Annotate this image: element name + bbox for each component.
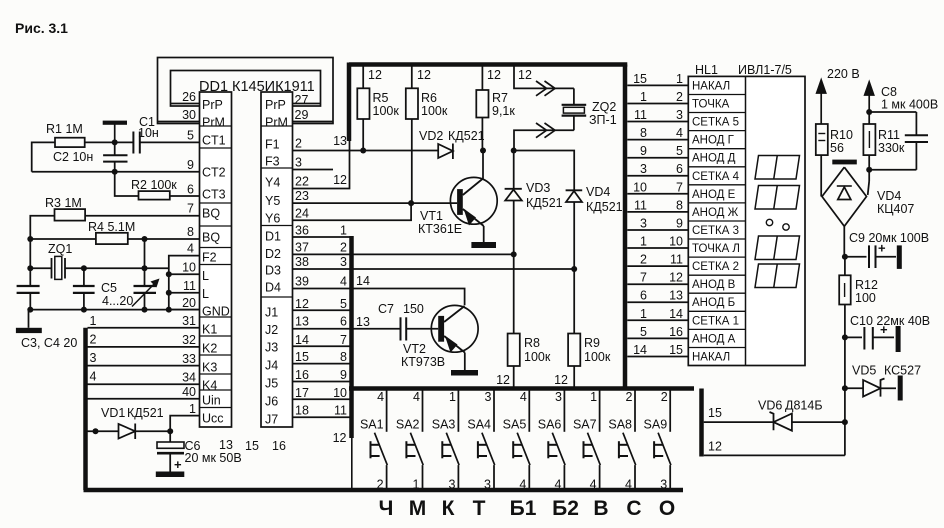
terminal bar bridge plus [832, 160, 857, 165]
svg-text:10н: 10н [138, 126, 159, 140]
svg-text:+: + [880, 322, 888, 337]
svg-text:7: 7 [187, 202, 194, 216]
svg-text:C7: C7 [378, 302, 394, 316]
svg-text:31: 31 [182, 314, 196, 328]
display digit group 1 [755, 156, 800, 180]
svg-text:8: 8 [676, 198, 683, 212]
svg-text:4: 4 [554, 478, 561, 492]
DD1 right cell labels [265, 98, 288, 427]
svg-text:3: 3 [660, 478, 667, 492]
pin 18 wire J7 [293, 404, 352, 418]
svg-text:АНОД Г: АНОД Г [692, 135, 735, 147]
svg-text:100к: 100к [421, 104, 448, 118]
svg-text:9: 9 [340, 368, 347, 382]
pin 32 wire K2 [88, 333, 200, 348]
svg-text:CT3: CT3 [202, 188, 226, 202]
svg-text:27: 27 [295, 93, 309, 107]
HL1 pin АНОД Д 9/5 [627, 144, 735, 165]
label key Б1 [510, 497, 537, 520]
pin 8 wire BQ [145, 225, 200, 239]
svg-text:4: 4 [520, 390, 527, 404]
svg-text:J1: J1 [265, 306, 278, 320]
wire R1 loop [32, 142, 115, 171]
svg-text:VD1: VD1 [101, 406, 125, 420]
switch SA9 [644, 390, 671, 492]
svg-text:R5: R5 [373, 91, 389, 105]
svg-text:2: 2 [377, 478, 384, 492]
diode VD5 КС527 zener [845, 364, 921, 401]
svg-text:C10 22мк 40В: C10 22мк 40В [850, 314, 930, 328]
HL1 pin НАКАЛ 15/1 [627, 72, 730, 93]
svg-text:SA5: SA5 [503, 418, 527, 432]
switch SA6 [538, 390, 565, 492]
pin 34 wire K4 [88, 370, 200, 385]
svg-text:12: 12 [554, 373, 568, 387]
svg-text:J3: J3 [265, 341, 278, 355]
capacitor C7 150 [378, 302, 438, 341]
svg-text:R1 1M: R1 1M [46, 122, 83, 136]
svg-text:9: 9 [187, 158, 194, 172]
wire GND bus crystal [30, 309, 199, 311]
ground crystal [16, 310, 42, 333]
svg-text:C5: C5 [101, 281, 117, 295]
svg-text:4: 4 [590, 478, 597, 492]
display colon dots [766, 219, 789, 230]
HL1 pin АНОД Ж 11/8 [627, 198, 738, 219]
HL1 pin АНОД А 5/16 [627, 325, 735, 346]
DD1 right pin box [261, 92, 293, 427]
svg-text:J4: J4 [265, 359, 278, 373]
crystal ZQ1 [30, 242, 169, 279]
svg-text:15: 15 [295, 350, 309, 364]
svg-text:R12: R12 [855, 278, 878, 292]
pin 16 wire J5 [293, 368, 352, 382]
svg-text:СЕТКА 2: СЕТКА 2 [692, 261, 739, 273]
svg-text:15: 15 [669, 343, 683, 357]
svg-text:КД521: КД521 [586, 200, 623, 214]
svg-text:10: 10 [669, 235, 683, 249]
svg-text:3: 3 [295, 156, 302, 170]
svg-text:СЕТКА 5: СЕТКА 5 [692, 117, 739, 129]
svg-text:SA7: SA7 [573, 418, 597, 432]
svg-text:330к: 330к [878, 141, 905, 155]
svg-text:1: 1 [640, 90, 647, 104]
svg-text:КТ361Е: КТ361Е [418, 222, 462, 236]
pin 14 wire J3 [293, 333, 352, 347]
pin 13 wire J2 to C7 [293, 315, 401, 330]
net 12 label in switch box [333, 431, 347, 445]
svg-text:АНОД В: АНОД В [692, 279, 736, 291]
svg-text:VD4: VD4 [877, 189, 901, 203]
svg-text:12: 12 [333, 173, 347, 187]
svg-text:30: 30 [182, 108, 196, 122]
wire ZQ2 lower [514, 123, 574, 152]
svg-text:L: L [202, 287, 209, 301]
svg-text:D2: D2 [265, 247, 281, 261]
transistor VT2 КТ973В [401, 305, 478, 370]
svg-text:VD6: VD6 [758, 399, 782, 413]
display digit group 4 [755, 264, 800, 288]
svg-text:VT2: VT2 [403, 342, 426, 356]
svg-text:2: 2 [90, 333, 97, 347]
switch SA5 [503, 390, 530, 492]
svg-text:13: 13 [333, 134, 347, 148]
IC DD1 label [199, 79, 315, 95]
svg-text:13: 13 [669, 289, 683, 303]
svg-text:АНОД Б: АНОД Б [692, 297, 735, 309]
svg-text:GND: GND [202, 305, 230, 319]
switch SA8 [608, 390, 635, 492]
svg-text:КД521: КД521 [526, 196, 563, 210]
svg-text:М: М [409, 497, 427, 520]
svg-text:11: 11 [334, 404, 347, 418]
svg-text:4: 4 [90, 370, 97, 384]
label key К [442, 497, 455, 520]
pin 15 wire J4 [293, 350, 352, 364]
svg-text:12: 12 [368, 68, 382, 82]
svg-text:R10: R10 [830, 128, 853, 142]
svg-text:11: 11 [634, 108, 647, 122]
node R11 bottom [866, 167, 872, 173]
svg-text:CT2: CT2 [202, 166, 226, 180]
resistor R1 1M [46, 122, 85, 147]
svg-text:56: 56 [830, 141, 844, 155]
node D3 junction [571, 266, 577, 272]
svg-text:1 мк 400В: 1 мк 400В [881, 98, 938, 112]
svg-text:3: 3 [640, 217, 647, 231]
diode VD2 КД521 [419, 129, 485, 159]
svg-text:ИВЛ1-7/5: ИВЛ1-7/5 [738, 63, 792, 77]
label key С [626, 497, 641, 520]
svg-text:17: 17 [295, 386, 309, 400]
svg-text:C9 20мк 100В: C9 20мк 100В [849, 231, 929, 245]
svg-text:КТ973В: КТ973В [401, 355, 445, 369]
svg-text:39: 39 [295, 275, 309, 289]
svg-text:F2: F2 [202, 251, 217, 265]
svg-text:СЕТКА 3: СЕТКА 3 [692, 225, 739, 237]
svg-text:11: 11 [634, 198, 647, 212]
svg-text:1: 1 [340, 224, 347, 238]
svg-text:8: 8 [340, 350, 347, 364]
svg-text:12: 12 [708, 440, 722, 454]
svg-text:14: 14 [633, 343, 647, 357]
svg-text:12: 12 [487, 68, 501, 82]
svg-text:КД521: КД521 [127, 406, 164, 420]
svg-text:12: 12 [669, 271, 683, 285]
svg-text:12: 12 [417, 68, 431, 82]
svg-text:4: 4 [676, 126, 683, 140]
svg-text:23: 23 [295, 189, 309, 203]
HL1 pin АНОД Г 8/4 [627, 126, 734, 147]
capacitor C9 20мк 100В [845, 231, 929, 269]
switch SA2 [396, 390, 423, 492]
svg-text:Д814Б: Д814Б [785, 399, 823, 413]
svg-text:J6: J6 [265, 395, 278, 409]
pin 2 wire F1 net13 [293, 134, 439, 151]
svg-text:4: 4 [340, 275, 347, 289]
svg-text:D4: D4 [265, 281, 281, 295]
title Рис. 3.1 [15, 20, 68, 36]
label key Б2 [552, 497, 579, 520]
svg-text:4: 4 [519, 478, 526, 492]
capacitor C3 [17, 239, 40, 310]
svg-text:F1: F1 [265, 138, 280, 152]
svg-text:40: 40 [182, 385, 196, 399]
label key Ч [379, 497, 394, 520]
capacitor C10 22мк 40В [845, 314, 930, 352]
node ZQ1 right junction [81, 265, 87, 271]
node BQ junction right [142, 236, 148, 242]
pin 3 stub F3 [293, 156, 334, 170]
svg-text:4...20: 4...20 [102, 294, 133, 308]
svg-text:36: 36 [295, 224, 309, 238]
svg-text:SA2: SA2 [396, 418, 420, 432]
svg-text:37: 37 [295, 241, 309, 255]
svg-text:L: L [202, 269, 209, 283]
svg-text:R8: R8 [524, 336, 540, 350]
node VT1 base junction [408, 200, 414, 206]
HL1 pin СЕТКА 5 11/3 [627, 108, 739, 129]
svg-text:Y4: Y4 [265, 176, 280, 190]
pin 39 wire D4 to VT2 collector [293, 274, 465, 305]
pin 11 wire L [166, 279, 200, 296]
svg-text:14: 14 [356, 274, 370, 288]
svg-text:1: 1 [640, 307, 647, 321]
svg-text:100к: 100к [373, 104, 400, 118]
svg-text:5: 5 [640, 325, 647, 339]
svg-text:VD5: VD5 [852, 364, 876, 378]
svg-text:D3: D3 [265, 264, 281, 278]
pin 24 wire Y6 [293, 203, 412, 220]
pin 37 wire D2 to VD3 [293, 241, 514, 255]
svg-text:К: К [442, 497, 455, 520]
HL1 pin ТОЧКА Л 1/10 [627, 235, 740, 256]
diode VD6 Д814Б zener [758, 399, 823, 431]
pin 27 wire [293, 93, 321, 107]
switch SA4 [467, 390, 494, 492]
svg-text:8: 8 [187, 225, 194, 239]
svg-text:5: 5 [340, 297, 347, 311]
svg-text:+: + [878, 241, 886, 256]
svg-text:6: 6 [187, 183, 194, 197]
svg-text:K3: K3 [202, 361, 217, 375]
svg-text:4: 4 [377, 390, 384, 404]
svg-text:K4: K4 [202, 379, 217, 393]
DD1 left cell separators [200, 126, 232, 408]
pin 4 wire F2 [169, 242, 200, 310]
resistor R10 56 [816, 124, 853, 197]
svg-text:АНОД Е: АНОД Е [692, 189, 736, 201]
svg-text:5: 5 [676, 144, 683, 158]
svg-text:PrP: PrP [202, 98, 223, 112]
pin 38 wire D3 to VD4 [293, 255, 575, 269]
svg-text:3: 3 [484, 478, 491, 492]
mains 220V input [817, 67, 874, 124]
svg-text:2: 2 [676, 90, 683, 104]
svg-text:9: 9 [640, 144, 647, 158]
svg-text:1: 1 [640, 235, 647, 249]
svg-text:26: 26 [182, 90, 196, 104]
svg-text:18: 18 [295, 404, 309, 418]
svg-text:СЕТКА 1: СЕТКА 1 [692, 315, 739, 327]
svg-text:Ucc: Ucc [202, 412, 224, 426]
resistor R6 100к [406, 65, 448, 204]
svg-text:НАКАЛ: НАКАЛ [692, 352, 730, 364]
svg-text:VT1: VT1 [420, 209, 443, 223]
svg-text:R7: R7 [492, 91, 508, 105]
node VD6 junction [842, 419, 848, 425]
capacitor C4 [73, 268, 95, 309]
svg-text:SA9: SA9 [644, 418, 668, 432]
svg-text:2: 2 [661, 390, 668, 404]
svg-text:R11: R11 [878, 128, 900, 142]
HL1 pin АНОД Е 10/7 [627, 180, 735, 201]
display HL1 ИВЛ1-7/5 label [695, 63, 792, 77]
wire ZQ2 upper net12 [514, 65, 574, 96]
svg-text:КС527: КС527 [884, 364, 921, 378]
svg-text:150: 150 [403, 302, 424, 316]
svg-text:9: 9 [676, 217, 683, 231]
svg-text:2: 2 [340, 241, 347, 255]
svg-text:24: 24 [295, 207, 309, 221]
svg-text:CT1: CT1 [202, 134, 226, 148]
pin 31 wire K1 [88, 314, 200, 328]
svg-text:6: 6 [340, 315, 347, 329]
svg-text:R9: R9 [584, 336, 600, 350]
svg-text:PrM: PrM [265, 116, 288, 130]
svg-text:3: 3 [485, 390, 492, 404]
svg-text:НАКАЛ: НАКАЛ [692, 80, 730, 92]
HL1 pin СЕТКА 3 3/9 [627, 217, 739, 238]
svg-text:7: 7 [676, 180, 683, 194]
svg-text:J2: J2 [265, 323, 278, 337]
svg-text:16: 16 [669, 325, 683, 339]
sensor plate E1 [103, 121, 127, 143]
switch SA3 [432, 390, 459, 492]
svg-text:SA4: SA4 [467, 418, 491, 432]
node VD1 anode [93, 428, 99, 434]
svg-text:3: 3 [676, 108, 683, 122]
svg-text:15: 15 [245, 439, 259, 453]
svg-text:8: 8 [640, 126, 647, 140]
svg-text:3: 3 [90, 351, 97, 365]
svg-text:VD4: VD4 [586, 185, 610, 199]
display HL1 row separators [688, 95, 745, 348]
wire bridge minus [843, 226, 845, 256]
svg-text:3: 3 [555, 390, 562, 404]
node VD3 top junction [511, 148, 517, 154]
DD1 left cell labels [202, 98, 230, 426]
bus bottom common [84, 488, 684, 493]
pin 12 wire J1 [293, 297, 352, 311]
svg-text:20: 20 [182, 296, 196, 310]
svg-text:СЕТКА 4: СЕТКА 4 [692, 171, 740, 183]
svg-text:15: 15 [708, 406, 722, 420]
node C10 junction [842, 334, 848, 340]
svg-text:АНОД Ж: АНОД Ж [692, 207, 739, 219]
resistor R4 5.1M [30, 220, 144, 244]
svg-text:100к: 100к [584, 350, 611, 364]
diode VD4 КД521 [566, 185, 623, 269]
svg-text:ТОЧКА Л: ТОЧКА Л [692, 243, 740, 255]
node C5 top junction [142, 265, 148, 271]
svg-text:12: 12 [496, 373, 510, 387]
svg-text:ТОЧКА: ТОЧКА [692, 99, 730, 111]
svg-text:13: 13 [219, 438, 233, 452]
svg-text:VD3: VD3 [526, 181, 550, 195]
svg-text:VD2: VD2 [419, 129, 443, 143]
svg-text:12: 12 [518, 68, 532, 82]
svg-text:220 В: 220 В [827, 67, 860, 81]
pin 23 wire Y5 to VT1 base [293, 189, 458, 203]
switch SA1 [360, 390, 387, 492]
svg-text:K1: K1 [202, 323, 217, 337]
svg-text:SA3: SA3 [432, 418, 456, 432]
node VD5 junction [842, 385, 848, 391]
svg-text:R6: R6 [421, 91, 437, 105]
svg-text:3: 3 [340, 255, 347, 269]
pin 7 wire BQ [85, 202, 199, 216]
svg-text:13: 13 [295, 315, 309, 329]
pin 33 wire K3 [88, 351, 200, 366]
svg-text:R3 1M: R3 1M [45, 196, 82, 210]
capacitor C8 1мк 400В [869, 85, 938, 170]
pin 10 wire L [166, 261, 200, 278]
svg-text:Т: Т [473, 497, 486, 520]
svg-text:9,1к: 9,1к [492, 104, 515, 118]
svg-text:16: 16 [295, 368, 309, 382]
svg-text:R2 100к: R2 100к [131, 178, 177, 192]
capacitor C1 10н [115, 115, 159, 154]
svg-text:ЗП-1: ЗП-1 [589, 113, 617, 127]
DD1 left pin box [200, 92, 232, 427]
pin 6 wire CT3 [170, 183, 200, 197]
bus keypad vertical [83, 328, 88, 490]
bridge rectifier VD4 КЦ407 [822, 167, 914, 226]
label key Т [473, 497, 486, 520]
svg-text:Б1: Б1 [510, 497, 537, 520]
svg-text:КЦ407: КЦ407 [877, 202, 914, 216]
svg-text:Y5: Y5 [265, 194, 280, 208]
svg-text:1: 1 [590, 390, 597, 404]
svg-text:10: 10 [333, 386, 347, 400]
svg-text:BQ: BQ [202, 231, 220, 245]
label key О [659, 497, 675, 520]
svg-text:Uin: Uin [202, 394, 221, 408]
diode VD3 КД521 [505, 151, 563, 255]
svg-text:11: 11 [670, 253, 683, 267]
svg-text:3: 3 [640, 162, 647, 176]
wire net F1 to VD4 [514, 151, 575, 191]
HL1 pin ТОЧКА 1/2 [627, 90, 729, 111]
unused pins 13 15 16 [219, 438, 286, 453]
svg-text:14: 14 [295, 333, 309, 347]
svg-text:10: 10 [633, 180, 647, 194]
capacitor C5 variable 4...20 [101, 239, 160, 310]
pin 1 wire Ucc [170, 402, 199, 431]
resistor R9 100к [554, 269, 611, 389]
HL1 pin АНОД В 7/12 [627, 271, 735, 292]
svg-text:100: 100 [855, 291, 876, 305]
ground VT2 emitter [451, 370, 478, 376]
switch SA7 [573, 390, 600, 492]
svg-text:11: 11 [183, 279, 196, 293]
svg-text:4: 4 [187, 242, 194, 256]
svg-text:100к: 100к [524, 350, 551, 364]
HL1 pin СЕТКА 4 3/6 [627, 162, 739, 183]
HL1 pin НАКАЛ 14/15 [627, 343, 730, 364]
svg-text:С: С [626, 497, 641, 520]
